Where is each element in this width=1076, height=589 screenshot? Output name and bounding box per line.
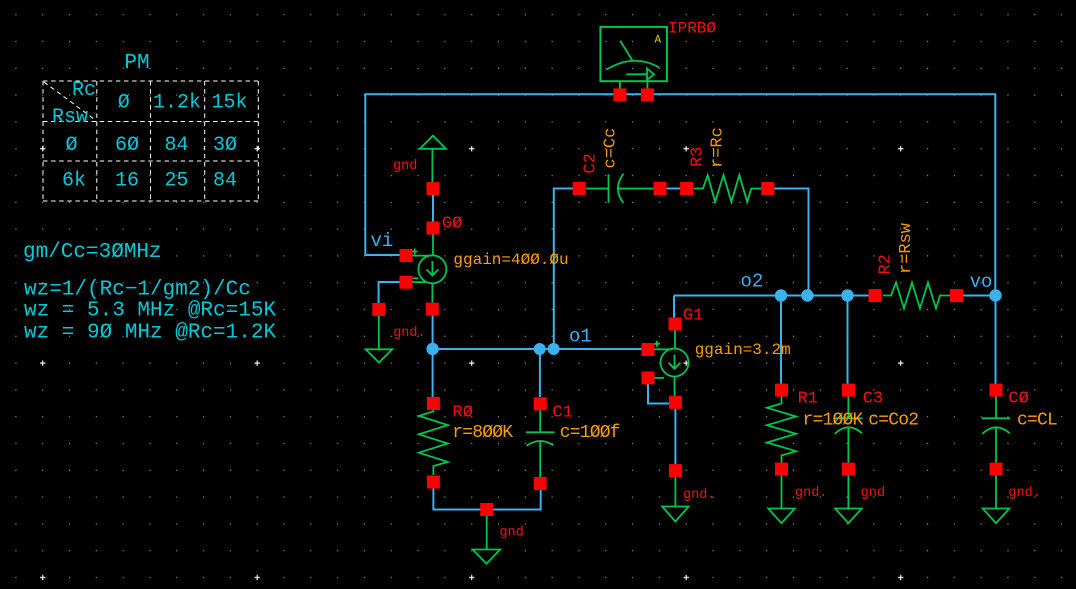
svg-text:84: 84 — [164, 134, 188, 157]
svg-text:G1: G1 — [683, 307, 703, 326]
svg-text:IPRBØ: IPRBØ — [668, 19, 716, 37]
svg-text:vi: vi — [371, 230, 394, 252]
svg-text:15k: 15k — [211, 92, 247, 115]
svg-text:r=8ØØK: r=8ØØK — [452, 423, 513, 443]
svg-text:R1: R1 — [798, 389, 818, 408]
svg-text:6k: 6k — [62, 170, 86, 193]
svg-text:16: 16 — [115, 170, 139, 193]
svg-text:CØ: CØ — [1008, 389, 1028, 408]
svg-text:gnd.: gnd. — [683, 488, 715, 503]
svg-text:gnd.: gnd. — [1008, 486, 1040, 501]
svg-text:Rc: Rc — [72, 79, 96, 102]
svg-text:o2: o2 — [741, 271, 764, 293]
svg-text:6Ø: 6Ø — [115, 134, 139, 157]
svg-text:r=Rsw: r=Rsw — [897, 222, 916, 274]
svg-text:Ø: Ø — [65, 134, 77, 157]
svg-text:RØ: RØ — [453, 404, 473, 423]
svg-text:o1: o1 — [569, 326, 592, 348]
svg-text:c=1ØØf: c=1ØØf — [560, 423, 620, 443]
svg-text:Ø: Ø — [118, 92, 130, 115]
svg-text:c=Co2: c=Co2 — [868, 411, 918, 431]
svg-text:r=Rc: r=Rc — [708, 127, 727, 168]
svg-text:PM: PM — [124, 52, 149, 75]
svg-text:ggain=3.2m: ggain=3.2m — [695, 341, 791, 359]
svg-text:c=CL: c=CL — [1017, 411, 1057, 431]
svg-text:gnd.: gnd. — [393, 326, 425, 341]
svg-text:R3: R3 — [689, 147, 708, 167]
svg-text:C3: C3 — [863, 389, 883, 408]
svg-text:84: 84 — [213, 170, 237, 193]
svg-text:Rsw: Rsw — [52, 106, 88, 129]
svg-text:25: 25 — [164, 170, 188, 193]
svg-text:wz = 9Ø MHz @Rc=1.2K: wz = 9Ø MHz @Rc=1.2K — [24, 322, 276, 345]
svg-text:r=1ØØK: r=1ØØK — [803, 411, 864, 431]
svg-text:gnd: gnd — [861, 486, 885, 501]
svg-text:GØ: GØ — [442, 214, 462, 233]
svg-text:vo: vo — [970, 271, 993, 293]
svg-text:gnd: gnd — [500, 525, 524, 540]
svg-text:C1: C1 — [552, 404, 572, 423]
svg-text:c=Cc: c=Cc — [602, 128, 621, 169]
svg-text:C2: C2 — [582, 153, 601, 173]
svg-text:3Ø: 3Ø — [213, 134, 237, 157]
svg-text:R2: R2 — [877, 254, 896, 274]
svg-text:A: A — [655, 35, 662, 47]
svg-text:wz=1/(Rc−1/gm2)/Cc: wz=1/(Rc−1/gm2)/Cc — [24, 279, 251, 302]
svg-text:gnd: gnd — [393, 159, 417, 174]
svg-text:1.2k: 1.2k — [153, 92, 201, 115]
svg-text:gm/Cc=3ØMHz: gm/Cc=3ØMHz — [23, 241, 162, 264]
svg-text:gnd.: gnd. — [795, 486, 827, 501]
svg-text:ggain=4ØØ.Øu: ggain=4ØØ.Øu — [453, 251, 568, 269]
svg-text:wz = 5.3 MHz @Rc=15K: wz = 5.3 MHz @Rc=15K — [24, 300, 276, 323]
